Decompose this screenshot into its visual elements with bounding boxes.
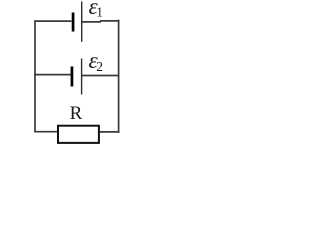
wire top-right segment b [100, 20, 119, 22]
wire middle-right segment [82, 75, 119, 77]
cell E1 positive plate (long thin) [81, 2, 82, 42]
svg-text:1: 1 [96, 5, 103, 20]
cell E1 negative plate (short thick) [72, 13, 75, 32]
wire middle-left segment [34, 74, 71, 76]
cell E2 positive plate (long thin) [81, 59, 82, 95]
wire right vertical [118, 20, 120, 133]
wire top-right segment a [82, 21, 101, 23]
wire bottom-right segment [99, 131, 119, 133]
wire bottom-left segment [34, 131, 58, 133]
cell E2 negative plate (short thick) [71, 67, 74, 87]
wire top-left segment [34, 20, 71, 22]
svg-text:R: R [70, 103, 83, 124]
svg-text:2: 2 [96, 59, 103, 74]
resistor R box [58, 126, 99, 143]
wire left vertical [34, 20, 36, 132]
